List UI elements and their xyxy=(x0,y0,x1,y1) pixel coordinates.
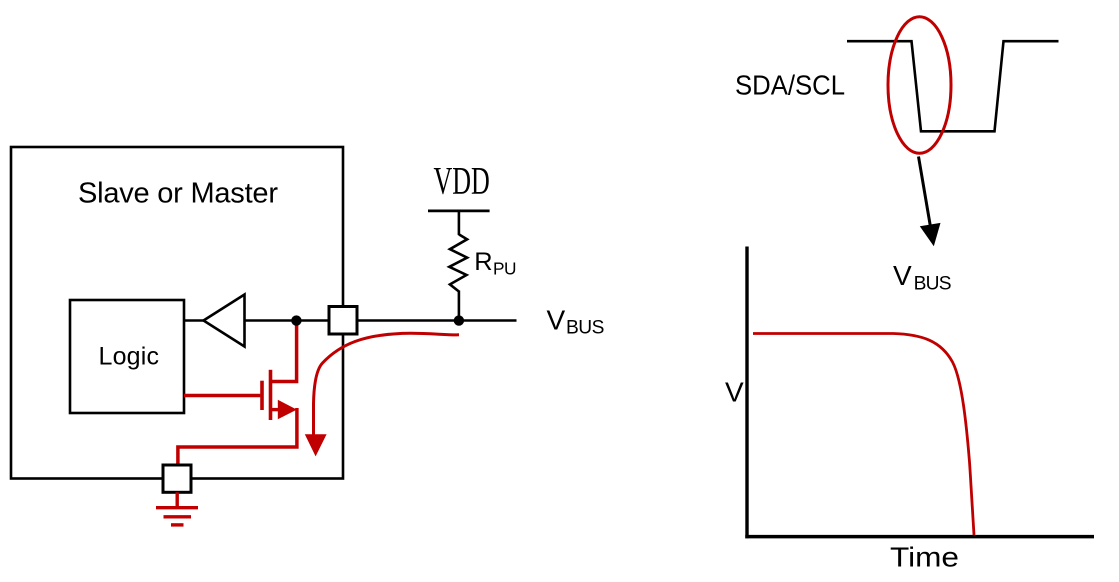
wire: resistor to bus node xyxy=(458,291,461,322)
svg-text:V: V xyxy=(547,304,566,335)
MOSFET Q1 source stub with arrow xyxy=(271,408,281,411)
SDA/SCL waveform xyxy=(847,41,1059,131)
svg-text:Slave or Master: Slave or Master xyxy=(78,178,278,210)
MOSFET Q1 channel bar xyxy=(269,370,273,420)
bus pin pad (square on box edge) xyxy=(329,307,357,335)
svg-text:Logic: Logic xyxy=(99,343,160,371)
input buffer U2 (triangle pointing left) xyxy=(204,295,245,347)
resistor RPU zigzag xyxy=(449,234,467,291)
MOSFET Q1 gate bar xyxy=(260,381,264,410)
wire: logic block to input buffer apex xyxy=(184,319,206,322)
ground symbol (red) xyxy=(175,492,178,507)
label: VDD (serif) xyxy=(434,161,490,203)
red ellipse highlight around falling edge xyxy=(888,17,951,154)
VBUS discharge curve (red) xyxy=(753,334,974,536)
svg-text:R: R xyxy=(474,248,492,276)
VDD rail bar xyxy=(428,209,490,212)
svg-text:BUS: BUS xyxy=(566,317,604,338)
arrow from ellipse to VBUS label xyxy=(919,157,931,228)
svg-text:VDD: VDD xyxy=(434,161,490,203)
wire: VDD rail to resistor xyxy=(458,211,461,235)
wire: MOSFET drain (red) up to bus node xyxy=(271,321,297,382)
IC outline box U1 (Slave or Master device) xyxy=(11,147,343,479)
svg-text:V: V xyxy=(893,260,912,291)
svg-text:V: V xyxy=(725,377,744,408)
svg-text:Time: Time xyxy=(890,541,959,572)
current flow arrow (red curved) xyxy=(314,333,460,437)
svg-text:PU: PU xyxy=(493,258,517,278)
logic block xyxy=(70,300,184,413)
svg-text:BUS: BUS xyxy=(914,273,952,294)
wire: MOSFET source down and left to ground pad (red) xyxy=(178,408,297,466)
bus wire: buffer output through pad to VBUS xyxy=(245,319,517,322)
wire: logic to MOSFET gate (red) xyxy=(184,394,260,398)
node: buffer/drain junction xyxy=(291,315,301,325)
V axis (y-axis) xyxy=(745,247,748,539)
node: pull-up junction xyxy=(454,315,464,325)
Time axis (x-axis) xyxy=(745,535,1094,539)
ground pin pad (square on box bottom edge) xyxy=(163,465,191,492)
svg-text:SDA/SCL: SDA/SCL xyxy=(735,69,845,100)
